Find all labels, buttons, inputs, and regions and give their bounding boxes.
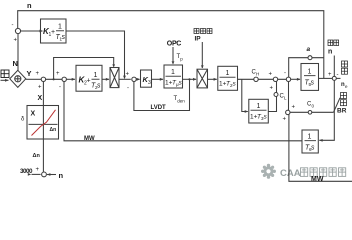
node D output junction — [332, 76, 336, 80]
wire OPC arrow — [172, 47, 174, 64]
wire sumB to blockT5 — [291, 78, 300, 80]
svg-text:+: + — [14, 38, 18, 44]
svg-text:H: H — [256, 72, 259, 77]
svg-text:s: s — [62, 34, 66, 41]
multiplier2 crossed box — [197, 69, 208, 88]
svg-text:-: - — [12, 23, 14, 29]
svg-text:X: X — [38, 95, 43, 102]
wire block2 to multiplier1 — [102, 78, 109, 80]
wire n down to blockT6 — [319, 80, 334, 140]
svg-text:s: s — [311, 145, 315, 152]
block 1/T5s content — [304, 69, 316, 88]
block 1/(1+T3s) content — [250, 103, 268, 121]
svg-text:den: den — [177, 99, 185, 104]
svg-text:1: 1 — [94, 72, 98, 79]
servo block 1/(1+Tus) — [165, 69, 183, 87]
wire circle1 to circle2 — [46, 78, 62, 80]
wire sum3 to K3 — [136, 78, 139, 80]
wire feedback line y57.7 to sum B — [289, 58, 324, 78]
svg-text:BR: BR — [337, 108, 347, 115]
wire top n feedback line — [18, 11, 324, 58]
svg-text:1: 1 — [171, 69, 175, 76]
svg-text:+: + — [38, 85, 42, 91]
svg-text:+: + — [292, 105, 296, 111]
block 1/(1+T2s) — [218, 66, 238, 90]
node circle2 — [62, 77, 66, 81]
node C0 — [308, 111, 312, 115]
svg-text:1: 1 — [226, 70, 230, 77]
node a circle — [308, 56, 312, 60]
svg-text:X: X — [31, 111, 36, 118]
summing junction A — [273, 77, 277, 81]
glyphs zhu-qi-ya (main steam pressure) — [194, 29, 212, 34]
watermark text CAA — [280, 168, 301, 179]
block K3 — [141, 70, 152, 87]
wire n input — [47, 174, 56, 176]
wire diamond to U1 — [17, 34, 19, 71]
svg-text:CAA: CAA — [280, 168, 301, 179]
svg-text:+: + — [51, 29, 55, 36]
svg-text:1: 1 — [308, 134, 312, 141]
svg-text:OPC: OPC — [167, 40, 182, 47]
svg-text:+: + — [283, 117, 287, 123]
wire MW output bottom right — [289, 115, 352, 182]
wire tap down to blockT3 — [242, 79, 248, 111]
wire n path vertical through X block — [42, 82, 44, 172]
wire sumB down to row C — [288, 82, 290, 111]
wire servo to multiplier2 — [183, 78, 197, 80]
block 1/T6s content — [305, 134, 317, 153]
svg-text:Δn: Δn — [33, 153, 41, 159]
svg-text:+: + — [328, 72, 332, 78]
wire T5 output row — [319, 77, 333, 79]
svg-text:+: + — [87, 78, 91, 85]
svg-text:-: - — [284, 71, 286, 77]
wire tap up to multiplier1 — [54, 58, 114, 80]
wire speed terminal up — [333, 56, 335, 77]
wire K3 to servo block — [152, 78, 164, 80]
svg-text:Y: Y — [27, 69, 32, 78]
svg-text:+: + — [126, 72, 130, 78]
svg-text:N: N — [13, 59, 18, 68]
wire blockT3 output up to sumA — [268, 82, 276, 112]
block 1/T5s integrator — [301, 64, 319, 91]
wire multiplier2 to blockT2 — [208, 78, 217, 80]
svg-text:+: + — [36, 167, 40, 173]
svg-text:+: + — [270, 86, 274, 92]
svg-text:n: n — [328, 49, 332, 56]
node circle1 — [41, 77, 45, 81]
block contents — [43, 24, 316, 153]
diamond selector — [10, 70, 26, 87]
block 1/T6s — [302, 130, 318, 153]
block2 K2+1/T2s — [79, 72, 102, 90]
svg-text:1: 1 — [308, 69, 312, 76]
svg-text:IP: IP — [195, 36, 202, 43]
glyphs zhuan-su (speed) — [328, 40, 339, 46]
function block X (speed droop) — [27, 106, 59, 140]
summing junction bottom (n-3000) — [42, 172, 47, 177]
svg-text:1: 1 — [58, 24, 62, 31]
svg-text:s: s — [311, 80, 315, 87]
node C_H — [254, 77, 258, 81]
svg-text:n: n — [59, 171, 64, 180]
glyphs jie-xing (BR) — [341, 93, 347, 106]
wire BR diagonal — [334, 98, 341, 113]
watermark CJK strokes — [301, 168, 346, 177]
svg-text:3: 3 — [148, 80, 151, 86]
summing junction B — [286, 77, 290, 81]
summing junction C — [286, 110, 290, 114]
svg-text:MW: MW — [84, 136, 95, 142]
node C_L — [274, 93, 278, 97]
svg-text:-: - — [59, 85, 61, 91]
wire input arrow — [1, 79, 9, 81]
svg-text:s: s — [97, 83, 101, 90]
control-system block diagram — [0, 0, 352, 186]
red droop characteristic — [32, 110, 56, 136]
svg-text:1: 1 — [257, 103, 261, 110]
summing junction sum3 — [132, 77, 136, 81]
hand-drawn CJK glyphs — [1, 70, 9, 78]
svg-text:+: + — [56, 71, 60, 77]
summing junction U1 top-left — [15, 28, 20, 33]
svg-text:MW: MW — [311, 176, 324, 183]
wire row C to BR — [290, 111, 308, 113]
block 1/(1+T3s) lower — [249, 99, 268, 123]
glyph shu (input) — [1, 70, 9, 78]
wire multiplier1 to sum3 — [119, 78, 131, 80]
svg-text:LVDT: LVDT — [151, 105, 167, 111]
wire 3000 into sum — [32, 173, 41, 175]
block2 K2+1/T2s — [76, 65, 102, 91]
wire circle2 to block2 — [66, 78, 75, 80]
block 1/(1+T2s) content — [219, 70, 237, 88]
svg-text:n: n — [27, 1, 32, 10]
watermark logo gear — [261, 164, 276, 179]
block1 K1+1/T1s — [41, 19, 67, 43]
wire MW feedback to circle2 — [64, 82, 302, 141]
svg-text:a: a — [307, 46, 311, 53]
svg-text:-: - — [337, 72, 339, 78]
wire LVDT feedback loop — [134, 79, 190, 110]
arrowheads — [5, 30, 323, 176]
wire main row diamond to circle1 — [26, 78, 41, 80]
svg-text:+: + — [269, 72, 273, 78]
svg-text:Δn: Δn — [50, 127, 57, 133]
block1 K1+1/T1s — [43, 24, 66, 42]
servo block 1/(1+Tus) — [164, 65, 183, 88]
svg-text:+: + — [36, 71, 40, 77]
wire blockT2 to sumB — [238, 78, 287, 80]
wire IP arrow — [201, 42, 203, 68]
svg-text:3000: 3000 — [20, 168, 33, 175]
glyphs dian-pin (elec freq) — [342, 61, 348, 74]
wire block1 output to OPC drop — [66, 31, 125, 78]
multiplier1 crossed box — [110, 68, 119, 88]
wire integrator output tap up — [323, 58, 325, 79]
wire U1 to block1 — [21, 30, 40, 32]
svg-text:-: - — [127, 86, 129, 92]
